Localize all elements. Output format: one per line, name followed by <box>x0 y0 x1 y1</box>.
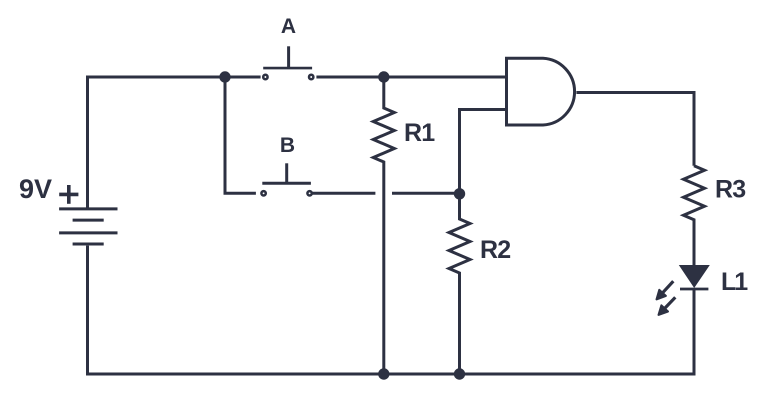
op-amp U1: AND gate body <box>507 58 575 125</box>
resistor R3 <box>684 166 705 266</box>
wire: AND gate output to R3 <box>576 93 694 166</box>
pushbutton A left terminal <box>263 75 267 79</box>
svg-text:L1: L1 <box>721 268 748 296</box>
pushbutton B bar and stem <box>262 163 311 183</box>
pushbutton A right terminal <box>309 75 313 79</box>
pushbutton B right terminal <box>307 191 311 195</box>
wire: button A right to AND gate top input <box>316 76 506 79</box>
node: junction R1 top <box>378 71 389 82</box>
wire: LED cathode down to bottom rail <box>693 289 696 374</box>
battery 9V plates <box>59 209 117 244</box>
resistor R2 <box>449 194 470 374</box>
svg-text:9V: 9V <box>19 174 52 204</box>
wire: after R1 crossing to node J3 <box>392 192 460 195</box>
wire: battery positive up and top rail to button A left <box>88 77 261 208</box>
pushbutton B left terminal <box>261 191 265 195</box>
LED emission arrow 2 <box>659 297 676 315</box>
node: junction R1 bottom <box>378 368 389 379</box>
svg-text:R1: R1 <box>404 119 435 147</box>
resistor R1 <box>373 77 394 374</box>
LED L1 triangle <box>680 266 708 287</box>
pushbutton A bar and stem <box>263 46 312 68</box>
node: junction J3 <box>454 188 465 199</box>
node: junction R2 bottom <box>454 368 465 379</box>
wire: branch down from node at x=225 to button B left <box>225 77 256 193</box>
LED emission arrow 1 <box>657 281 674 299</box>
svg-text:B: B <box>280 134 295 157</box>
svg-text:A: A <box>281 15 296 38</box>
node: junction top-left (x=225) <box>219 71 230 82</box>
LED L1 cathode bar <box>680 288 708 291</box>
battery plus sign <box>59 185 78 204</box>
svg-text:R3: R3 <box>715 176 745 204</box>
wire: node J3 up to AND gate bottom input <box>460 110 507 194</box>
wire: button B right toward R1 crossing <box>312 192 375 195</box>
svg-text:R2: R2 <box>480 236 510 264</box>
wire: bottom rail <box>88 246 696 374</box>
